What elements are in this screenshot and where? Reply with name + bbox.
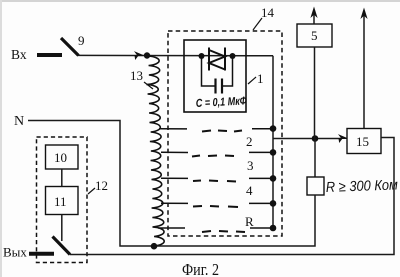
svg-text:R ≥ 300 Ком: R ≥ 300 Ком — [326, 177, 399, 196]
junction dot tap 3 — [270, 175, 277, 182]
tap 1 wire solid to bus — [252, 128, 273, 130]
wire: N to bottom — [28, 121, 314, 247]
tap R dashed middle — [202, 231, 245, 232]
svg-text:10: 10 — [54, 150, 67, 165]
tap 3 dashed middle — [193, 181, 236, 182]
tap R wire solid to bus — [250, 227, 273, 229]
svg-text:Фиг. 2: Фиг. 2 — [182, 260, 219, 277]
tap 4 wire solid to bus — [249, 202, 273, 204]
tap 2 wire solid to bus — [249, 151, 273, 153]
junction dot left inside box 1 — [199, 53, 205, 59]
junction dot tap 4 — [270, 200, 277, 207]
svg-text:1: 1 — [257, 71, 264, 86]
tap 3 wire solid from coil — [161, 177, 188, 179]
svg-text:11: 11 — [54, 194, 67, 209]
svg-text:14: 14 — [261, 5, 275, 20]
wire: bus to box 15 — [273, 138, 341, 140]
box 10 — [46, 145, 79, 169]
tap 1 dashed middle — [202, 131, 242, 132]
arrowhead up long — [360, 8, 367, 20]
wire: box 10 to box 11 — [61, 169, 63, 187]
tap 2 wire solid from coil — [161, 151, 188, 153]
wire: resistor down to bottom wire — [314, 195, 315, 246]
leader line for label 14 — [253, 18, 262, 30]
switch S9 blade — [61, 38, 79, 56]
wire: bus vertical (right collector line) — [272, 56, 274, 228]
svg-text:Вх: Вх — [11, 47, 27, 62]
junction dot tap R — [270, 225, 277, 232]
bidirectional diode VD right bar — [224, 48, 226, 71]
tap 4 wire solid from coil — [161, 202, 188, 204]
capacitor C right plate — [221, 79, 223, 94]
wire: box 11 to output switch — [61, 215, 63, 242]
output switch blade — [53, 237, 71, 255]
svg-text:13: 13 — [130, 68, 143, 83]
svg-text:12: 12 — [95, 178, 108, 193]
svg-text:15: 15 — [356, 134, 369, 149]
box 1 (protector unit) — [184, 40, 246, 112]
junction dot at node before box 15 — [312, 135, 319, 142]
leader line for label 13 — [144, 82, 153, 89]
resistor R box — [307, 177, 324, 195]
wire: arrow up from box 5 — [313, 11, 315, 24]
junction dot right inside box 1 — [230, 53, 236, 59]
wire: switch 9 to bus corner (main top wire) — [78, 54, 273, 56]
svg-text:9: 9 — [78, 33, 85, 48]
svg-text:4: 4 — [246, 183, 253, 198]
capacitor C left plate — [214, 79, 216, 94]
svg-text:2: 2 — [246, 134, 253, 149]
tap 1 wire solid from coil — [159, 128, 187, 130]
capacitor C leads — [202, 56, 216, 86]
output switch contact bar — [29, 252, 54, 256]
tap 2 dashed middle — [192, 156, 234, 157]
arrowhead into box 15 — [339, 135, 347, 141]
box 5 — [297, 24, 332, 47]
wire: long arrow up from box 15 — [363, 12, 365, 129]
arrowhead on main wire — [135, 52, 143, 58]
svg-text:N: N — [14, 114, 24, 129]
wire: box 5 down to node — [314, 47, 316, 139]
dashed box 12 (output unit enclosure) — [37, 137, 88, 263]
junction dot tap 2 — [270, 149, 277, 156]
inductor L13 winding — [147, 56, 165, 246]
svg-text:Вых: Вых — [3, 245, 27, 260]
svg-text:3: 3 — [247, 158, 254, 173]
box 15 — [347, 129, 381, 154]
box 11 — [46, 187, 79, 215]
tap 3 wire solid to bus — [249, 177, 273, 179]
svg-text:R: R — [245, 214, 254, 229]
bidirectional diode VD left bar — [208, 48, 210, 71]
leader line for label 12 — [88, 188, 95, 194]
svg-text:С = 0,1 МкФ: С = 0,1 МкФ — [196, 95, 248, 110]
wire: node down to resistor — [314, 139, 316, 178]
dashed box 14 (tuning unit enclosure) — [168, 31, 282, 236]
wire: output line to box 15 right side — [70, 138, 394, 255]
tap 4 dashed middle — [193, 206, 238, 207]
junction dot: coil top node — [144, 52, 150, 58]
leader line for label 1 — [248, 77, 256, 84]
junction dot tap 1 — [270, 125, 277, 132]
junction dot coil bottom — [151, 243, 158, 250]
switch S9 contact bar — [37, 53, 62, 57]
bidirectional diode VD triangles — [209, 50, 225, 70]
tap R wire solid from coil — [158, 227, 185, 229]
arrowhead up box 5 — [310, 7, 317, 19]
svg-text:5: 5 — [311, 28, 318, 43]
